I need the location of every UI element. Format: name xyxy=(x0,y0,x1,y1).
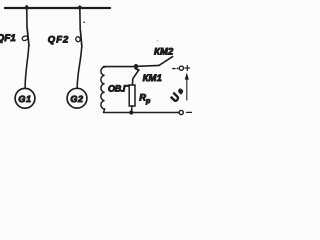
wire bus to QF2 xyxy=(79,6,81,30)
resistor Rp xyxy=(129,85,135,112)
svg-text:в: в xyxy=(175,86,185,95)
contact KM1 xyxy=(132,68,138,84)
node B junction dot xyxy=(129,110,133,114)
node A junction dot xyxy=(134,64,138,68)
circuit breaker QF2 xyxy=(75,31,82,48)
svg-text:ОВ.Г: ОВ.Г xyxy=(108,84,129,94)
wire bus to QF1 xyxy=(26,6,28,28)
node junction bus/QF2 xyxy=(78,6,82,10)
generator G2 xyxy=(67,88,87,108)
svg-text:Rp: Rp xyxy=(139,91,151,105)
contact KM2 xyxy=(138,57,173,67)
svg-text:КМ2: КМ2 xyxy=(154,45,174,56)
svg-text:QF1: QF1 xyxy=(0,33,16,44)
generator G1 xyxy=(15,88,35,108)
terminal minus xyxy=(179,110,191,114)
voltage arrow Uv xyxy=(185,73,189,101)
circuit breaker QF1 xyxy=(22,29,29,47)
wire coil top to node A xyxy=(104,66,135,68)
svg-text:G2: G2 xyxy=(70,94,83,104)
bus bar xyxy=(5,7,110,9)
svg-text:КМ1: КМ1 xyxy=(143,72,162,83)
svg-text:QF2: QF2 xyxy=(48,33,70,44)
svg-text:G1: G1 xyxy=(18,94,31,104)
wire QF1 to G1 xyxy=(25,46,29,88)
wire bottom return xyxy=(104,112,179,114)
wire QF2 to G2 xyxy=(77,47,82,88)
field winding coil OV.G xyxy=(101,67,105,113)
node junction bus/QF1 xyxy=(25,6,29,10)
label Uv xyxy=(168,86,185,104)
terminal plus xyxy=(173,66,190,71)
